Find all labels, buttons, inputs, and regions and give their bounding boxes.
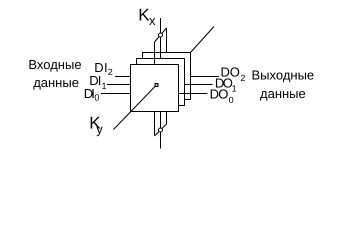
svg-text:DO: DO <box>210 87 229 102</box>
svg-text:DI: DI <box>84 86 95 101</box>
wire Kx to plane 1 <box>154 42 156 65</box>
wire Ky from plane 1 <box>154 112 156 136</box>
svg-text:2: 2 <box>108 67 113 77</box>
svg-text:0: 0 <box>94 92 99 102</box>
Kx bus node circle <box>159 33 163 37</box>
wire DO0 from plane 1 <box>179 93 208 95</box>
svg-text:1: 1 <box>102 81 107 91</box>
Ky bus node circle <box>159 128 163 132</box>
svg-text:0: 0 <box>229 95 234 105</box>
svg-text:Выходные: Выходные <box>252 67 315 82</box>
wire DI0 <box>101 93 131 95</box>
svg-text:x: x <box>149 13 156 28</box>
wire Ky from plane 2 (main Ky lead) <box>160 112 162 149</box>
wire DO1 from plane 2 <box>185 84 213 86</box>
svg-text:1: 1 <box>232 83 237 93</box>
svg-text:данные: данные <box>33 75 79 90</box>
matrix plane 1 (front square) <box>131 65 179 112</box>
plane axis diagonal (top right) <box>191 27 215 53</box>
wire Kx to plane 2 (main Kx lead) <box>160 18 162 59</box>
wire Ky from plane 3 <box>166 112 168 125</box>
wire DI2 <box>115 76 131 78</box>
wire Kx to plane 3 <box>166 28 168 53</box>
wire DO2 from plane 3 <box>191 76 220 78</box>
crosspoint node marker <box>155 84 158 87</box>
matrix plane 2 (middle square) <box>137 59 185 106</box>
wire DI1 <box>107 84 131 86</box>
svg-text:2: 2 <box>240 73 245 83</box>
crosspoint select diagonal (Ky pointer) <box>114 87 156 130</box>
svg-text:Входные: Входные <box>28 57 81 72</box>
svg-text:данные: данные <box>260 86 306 101</box>
Kx bus slash <box>155 28 167 42</box>
svg-text:y: y <box>96 122 103 137</box>
matrix plane 3 (back square) <box>143 53 191 100</box>
Ky bus slash <box>155 124 167 136</box>
